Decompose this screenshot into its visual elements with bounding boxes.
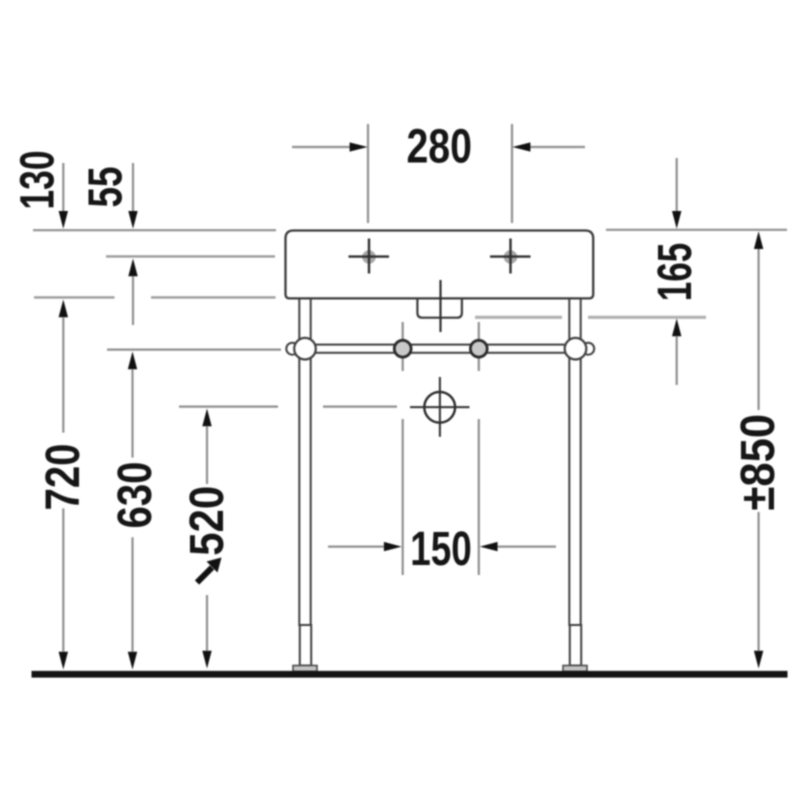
overflow recess under basin	[417, 298, 462, 317]
towel bar clamp right	[470, 340, 487, 357]
extension line 55-level	[106, 255, 275, 257]
dim 55 line upper	[132, 163, 134, 212]
dim 850 line with arrows	[754, 231, 763, 249]
dim 520 line with arrows	[202, 409, 211, 427]
drain hole circle	[424, 392, 455, 423]
dim 280 right tail and arrow	[530, 146, 585, 148]
svg-text:165: 165	[649, 243, 702, 302]
drain crosshair vertical	[439, 377, 441, 437]
right leg	[569, 298, 580, 625]
crossbar clamp at left leg	[294, 338, 316, 360]
dim 280 left tail and arrow	[292, 146, 351, 148]
dim 280 left witness line	[367, 124, 369, 223]
basin body	[286, 231, 594, 299]
dim 280 right witness line	[511, 124, 513, 223]
dim 720 line with arrows	[59, 300, 68, 318]
extension line crossbar-level	[107, 349, 281, 351]
crossbar clamp at right leg	[565, 338, 587, 360]
extension line tap-fix left upper	[402, 322, 404, 371]
extension line rim-top left	[33, 229, 276, 231]
left adjustable foot	[300, 625, 311, 666]
dim 165 lower arrow and tail	[672, 319, 681, 337]
dim 150 left tail and arrow	[328, 545, 384, 547]
svg-text:130: 130	[12, 151, 65, 210]
dim 55 lower arrow and tail	[128, 259, 137, 277]
extension line tap-fix right lower	[478, 419, 480, 575]
crossbar end cap left	[286, 343, 298, 355]
dim 630 line with arrows	[128, 352, 137, 370]
extension line 165-level left of leg	[475, 316, 562, 319]
svg-text:±850: ±850	[732, 414, 785, 511]
crossbar tube	[303, 345, 578, 353]
svg-text:150: 150	[410, 523, 472, 576]
extension line 165-level right of leg	[588, 316, 706, 319]
tap hole right	[504, 250, 518, 264]
drain crosshair horizontal	[410, 406, 470, 408]
right foot plate	[563, 666, 587, 672]
svg-text:280: 280	[406, 121, 472, 174]
extension line tap-fix left lower	[402, 419, 404, 575]
dim 130 line upper	[62, 163, 64, 212]
svg-text:630: 630	[109, 462, 162, 529]
left foot plate	[293, 666, 317, 672]
floor line	[32, 671, 788, 678]
tap hole left	[362, 250, 376, 264]
extension line tap-fix right upper	[478, 322, 480, 371]
crossbar end cap right	[582, 343, 594, 355]
towel bar clamp left	[394, 340, 411, 357]
left leg	[299, 298, 310, 625]
extension line drain-level segment 2	[323, 406, 397, 408]
dim 150 right arrow and tail	[480, 542, 498, 551]
extension line basin-bottom left part	[34, 296, 115, 298]
extension line basin-bottom right part	[151, 296, 276, 298]
extension line drain-level segment 1	[179, 406, 278, 408]
svg-text:720: 720	[37, 444, 90, 511]
dim 165 upper line and arrow	[676, 158, 678, 211]
svg-text:55: 55	[80, 167, 133, 208]
svg-text:520: 520	[181, 486, 234, 556]
adjustability arrow next to 520	[197, 568, 212, 583]
right adjustable foot	[570, 625, 581, 666]
extension line rim-top right	[606, 229, 787, 231]
centerline overflow	[439, 280, 441, 332]
